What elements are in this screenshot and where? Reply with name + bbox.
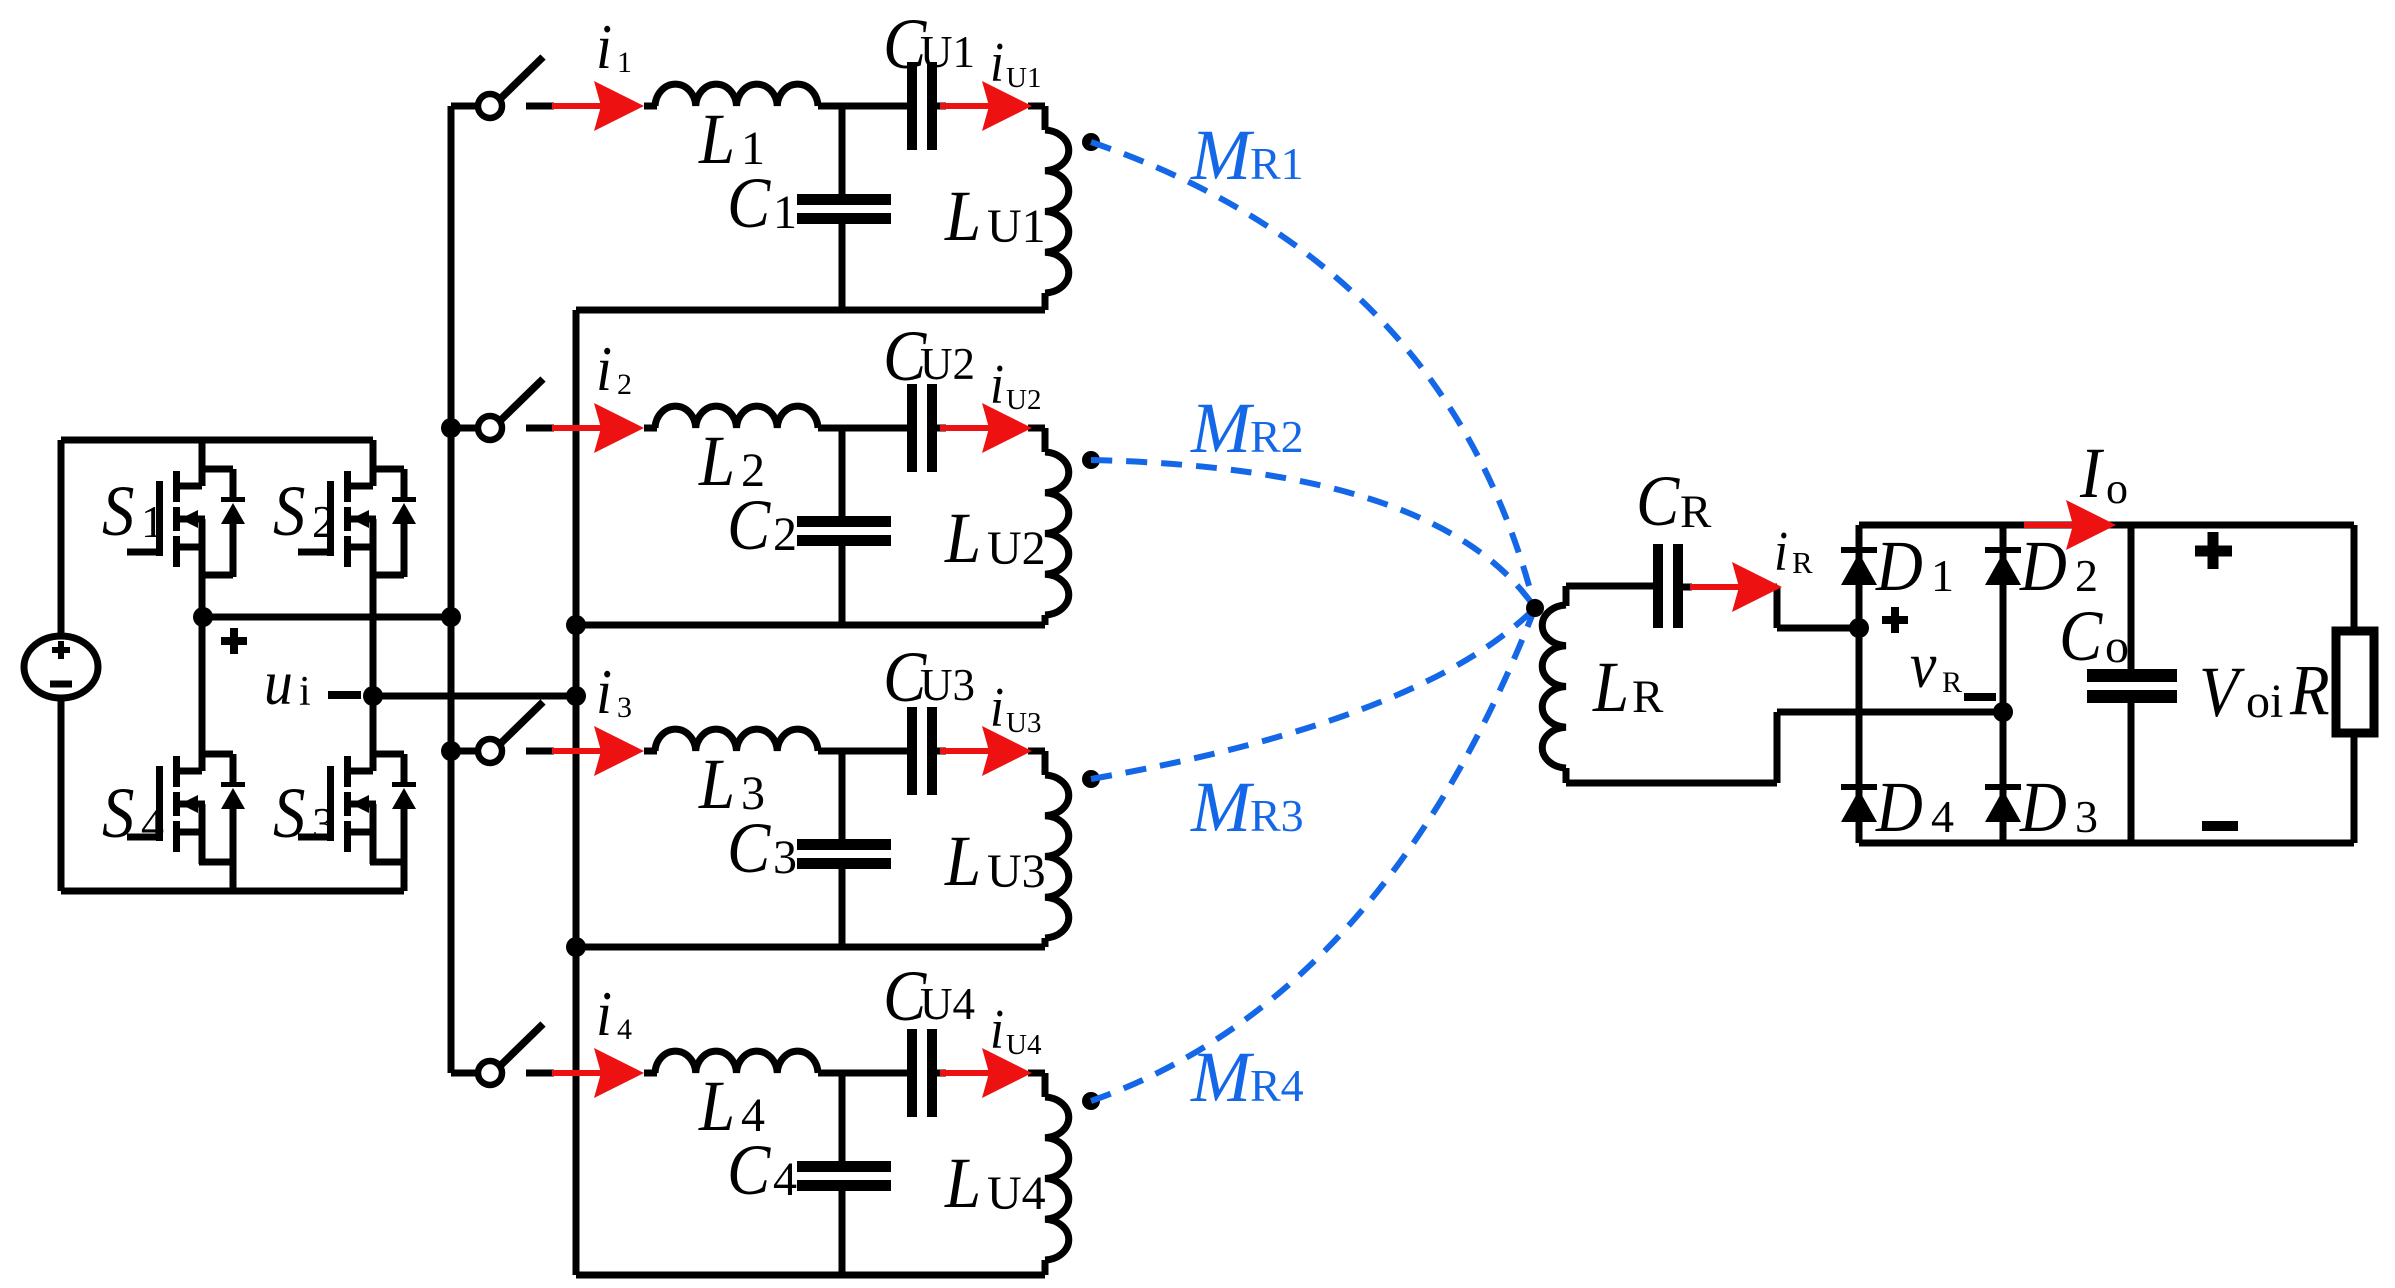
svg-text:L: L — [944, 821, 981, 901]
current label i1 — [596, 12, 632, 82]
svg-text:M: M — [1190, 388, 1255, 468]
current label iU4 — [990, 999, 1042, 1061]
label - output — [2202, 821, 2238, 831]
svg-text:M: M — [1190, 1037, 1255, 1117]
svg-text:C: C — [727, 808, 771, 888]
label Voi — [2199, 652, 2283, 732]
current arrow i3 — [552, 726, 644, 776]
svg-text:U4: U4 — [1006, 1029, 1042, 1061]
current label iR — [1774, 521, 1813, 583]
svg-text:S: S — [273, 471, 305, 551]
svg-text:R: R — [1942, 666, 1962, 699]
wire return rail ch4 — [576, 1272, 1045, 1279]
mutual inductance MR4 — [1091, 608, 1535, 1117]
junction bridge left node — [1849, 618, 1869, 638]
svg-text:v: v — [1910, 628, 1936, 702]
svg-text:2: 2 — [2075, 550, 2098, 601]
svg-text:i: i — [596, 657, 612, 727]
current arrow i4 — [552, 1048, 644, 1098]
wire L1 to node — [644, 103, 907, 110]
svg-text:i: i — [596, 334, 612, 404]
svg-text:R: R — [1680, 486, 1712, 538]
wire LR top to CR — [1566, 583, 1656, 590]
svg-text:M: M — [1190, 115, 1255, 195]
wire inverter node A to bus — [202, 614, 451, 621]
mutual inductance MR3 — [1091, 608, 1535, 847]
transistor S2 with body diode — [273, 440, 416, 696]
svg-text:i: i — [990, 677, 1004, 739]
svg-text:U4: U4 — [920, 979, 975, 1029]
wire L3 to node — [644, 748, 907, 755]
resistor R — [2289, 525, 2374, 843]
inductor L3 — [655, 729, 818, 824]
transistor S3 with body diode — [273, 696, 416, 891]
switch SW2 — [451, 379, 554, 440]
svg-text:1: 1 — [1931, 550, 1954, 601]
label + at node A — [221, 628, 247, 654]
svg-text:4: 4 — [1931, 791, 1954, 842]
coil LU1 — [944, 106, 1069, 310]
svg-text:L: L — [944, 1143, 981, 1223]
svg-text:C: C — [727, 163, 771, 243]
svg-text:oi: oi — [2246, 675, 2283, 728]
svg-text:2: 2 — [617, 368, 632, 401]
wire bridge top rail — [1859, 522, 2354, 529]
svg-text:M: M — [1190, 767, 1255, 847]
svg-text:i: i — [1774, 521, 1788, 583]
polarity dot LU1 — [1082, 133, 1100, 151]
svg-text:3: 3 — [617, 691, 632, 724]
svg-text:3: 3 — [312, 798, 335, 849]
wire bottom DC rail — [61, 888, 404, 895]
wire bus A vertical — [448, 106, 455, 1073]
svg-text:o: o — [2105, 620, 2129, 673]
svg-text:i: i — [596, 12, 612, 82]
svg-text:U1: U1 — [920, 27, 975, 77]
junction bridge right node — [1993, 702, 2013, 722]
junction node A — [193, 607, 213, 627]
current arrow Io — [2024, 500, 2116, 550]
capacitor Co — [2059, 525, 2177, 843]
svg-text:C: C — [727, 485, 771, 565]
svg-text:1: 1 — [141, 496, 164, 547]
junction bus A ch2 — [441, 418, 461, 438]
svg-text:D: D — [1875, 767, 1923, 847]
wire bridge left leg — [1856, 525, 1863, 843]
diode D3 — [1985, 767, 2098, 847]
svg-text:S: S — [102, 471, 134, 551]
junction bus A ch3 — [441, 741, 461, 761]
label ui — [264, 648, 361, 718]
capacitor C3 shunt — [727, 751, 891, 947]
svg-text:L: L — [1592, 647, 1629, 727]
svg-text:C: C — [1636, 461, 1680, 541]
wire top DC rail — [61, 437, 373, 444]
wire bus B vertical — [573, 310, 580, 1275]
capacitor C2 shunt — [727, 428, 891, 625]
svg-text:4: 4 — [773, 1153, 797, 1206]
svg-text:U2: U2 — [1006, 384, 1041, 416]
switch SW3 — [451, 702, 554, 763]
current arrow iU1 — [940, 81, 1032, 131]
wire inverter node B to bus — [373, 693, 576, 700]
capacitor CR — [1636, 461, 1712, 628]
transistor S4 with body diode — [102, 617, 245, 891]
svg-text:3: 3 — [773, 831, 797, 884]
label vR — [1910, 628, 1996, 702]
polarity dot LR — [1526, 599, 1544, 617]
wire LR bottom to bridge — [1566, 712, 2003, 783]
svg-text:R4: R4 — [1250, 1060, 1304, 1111]
svg-text:1: 1 — [617, 46, 632, 79]
svg-text:u: u — [264, 648, 293, 718]
current label iU1 — [990, 32, 1041, 94]
capacitor CU4 series — [883, 956, 975, 1117]
junction node B — [363, 686, 383, 706]
svg-text:U4: U4 — [987, 1167, 1046, 1220]
svg-text:i: i — [990, 32, 1004, 94]
svg-text:D: D — [1875, 526, 1923, 606]
current arrow iU3 — [940, 726, 1032, 776]
current label i4 — [596, 979, 632, 1049]
svg-text:2: 2 — [773, 508, 797, 561]
inductor L4 — [655, 1051, 818, 1146]
coil LR — [1542, 586, 1664, 783]
current arrow iU4 — [940, 1048, 1032, 1098]
current arrow iR — [1690, 562, 1782, 612]
capacitor C4 shunt — [727, 1073, 891, 1275]
svg-text:S: S — [102, 773, 134, 853]
current label iU3 — [990, 677, 1041, 739]
svg-text:U1: U1 — [1006, 62, 1041, 94]
switch SW1 — [451, 57, 554, 118]
capacitor CU2 series — [883, 316, 975, 472]
svg-text:i: i — [596, 979, 612, 1049]
svg-text:D: D — [2019, 526, 2067, 606]
wire return rail ch2 — [576, 622, 1045, 629]
svg-text:i: i — [990, 999, 1004, 1061]
svg-text:2: 2 — [312, 496, 335, 547]
svg-text:L: L — [944, 176, 981, 256]
capacitor CU1 series — [883, 4, 975, 150]
wire bridge right leg — [2000, 525, 2007, 843]
svg-text:i: i — [990, 354, 1004, 416]
wire CR to bridge top — [1773, 587, 1859, 628]
svg-text:R2: R2 — [1250, 411, 1304, 462]
svg-text:C: C — [727, 1130, 771, 1210]
svg-text:4: 4 — [617, 1013, 632, 1046]
diode D1 — [1841, 526, 1954, 606]
svg-text:4: 4 — [141, 798, 164, 849]
wire L4 to node — [644, 1070, 907, 1077]
current label i2 — [596, 334, 632, 404]
svg-text:i: i — [299, 669, 311, 715]
junction bus A node A — [441, 607, 461, 627]
junction bus B ch3 return — [566, 937, 586, 957]
svg-text:U3: U3 — [987, 845, 1046, 898]
current arrow i2 — [552, 403, 644, 453]
transistor S1 with body diode — [102, 440, 245, 617]
current arrow iU2 — [940, 403, 1032, 453]
polarity dot LU2 — [1082, 451, 1100, 469]
capacitor CU3 series — [883, 637, 975, 795]
svg-text:R: R — [1632, 671, 1664, 723]
junction bus B ch2 return — [566, 615, 586, 635]
junction bus B node B — [566, 686, 586, 706]
svg-text:R: R — [1792, 545, 1813, 580]
svg-text:R: R — [2289, 650, 2330, 730]
svg-text:I: I — [2079, 433, 2105, 513]
mutual inductance MR1 — [1091, 115, 1535, 608]
coil LU2 — [944, 428, 1069, 625]
diode D2 — [1985, 526, 2098, 606]
capacitor C1 shunt — [727, 106, 891, 310]
inductor L1 — [655, 84, 818, 179]
svg-text:C: C — [2059, 596, 2103, 676]
wire return rail ch1 — [576, 307, 1045, 314]
current label Io — [2079, 433, 2128, 513]
svg-text:R1: R1 — [1250, 138, 1304, 189]
svg-text:U2: U2 — [920, 339, 975, 389]
coil LU3 — [944, 751, 1069, 947]
wire L2 to node — [644, 425, 907, 432]
current arrow i1 — [552, 81, 644, 131]
svg-text:U3: U3 — [1006, 707, 1041, 739]
svg-text:S: S — [273, 773, 305, 853]
current label i3 — [596, 657, 632, 727]
wire bridge bottom rail — [1859, 840, 2354, 847]
svg-text:U1: U1 — [987, 200, 1046, 253]
wire return rail ch3 — [576, 944, 1045, 951]
svg-text:o: o — [2106, 464, 2128, 513]
svg-text:R3: R3 — [1250, 790, 1304, 841]
label + output — [2195, 532, 2232, 569]
polarity dot LU3 — [1082, 770, 1100, 788]
diode D4 — [1841, 767, 1954, 847]
inductor L2 — [655, 406, 818, 501]
svg-text:U2: U2 — [987, 522, 1046, 575]
svg-text:D: D — [2019, 767, 2067, 847]
mutual inductance MR2 — [1091, 388, 1535, 608]
svg-text:U3: U3 — [920, 660, 975, 710]
current label iU2 — [990, 354, 1041, 416]
svg-text:L: L — [944, 498, 981, 578]
switch SW4 — [451, 1024, 554, 1085]
svg-text:1: 1 — [773, 186, 797, 239]
coil LU4 — [944, 1073, 1069, 1275]
polarity dot LU4 — [1082, 1092, 1100, 1110]
svg-text:3: 3 — [2075, 791, 2098, 842]
svg-text:V: V — [2199, 652, 2245, 732]
dc voltage source Vin — [24, 440, 98, 891]
label + bridge — [1882, 607, 1908, 633]
